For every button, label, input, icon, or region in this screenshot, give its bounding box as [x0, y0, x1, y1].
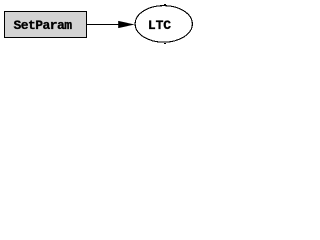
- ellipse bottom vertex tick: [164, 43, 166, 44]
- svg-text:SetParam: SetParam: [14, 18, 73, 33]
- ellipse top vertex tick: [164, 4, 166, 5]
- node SetParam (box): [5, 12, 87, 38]
- svg-text:LTC: LTC: [148, 18, 171, 33]
- arrowhead: [118, 21, 135, 28]
- node LTC (ellipse): [135, 6, 192, 43]
- wire: edge SetParam -> LTC: [86, 24, 121, 26]
